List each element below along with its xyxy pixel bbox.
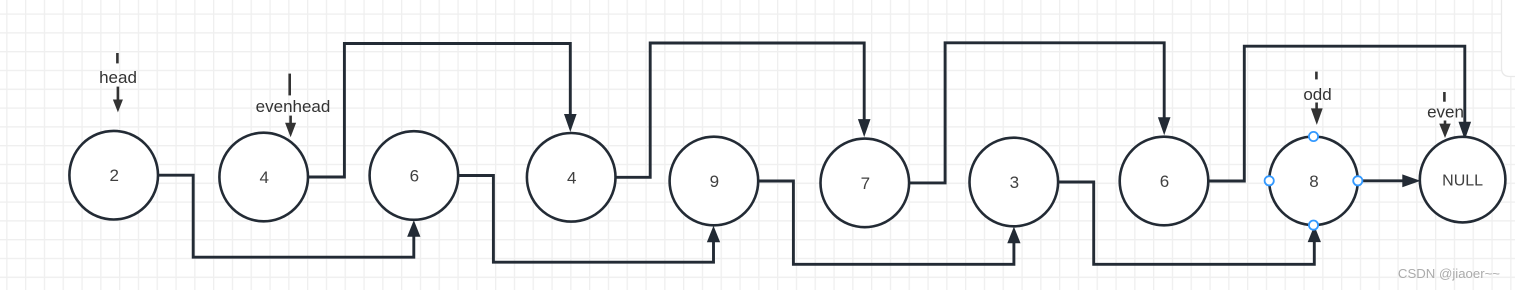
- wire 9 to 3 (bottom): [758, 181, 1014, 264]
- arrowhead into top of node 4b: [565, 115, 576, 131]
- wire 4b to 7 (top): [616, 43, 865, 177]
- svg-text:7: 7: [861, 174, 870, 193]
- label evenhead pointer: [256, 74, 331, 136]
- svg-text:evenhead: evenhead: [256, 97, 331, 116]
- wire 6b to NULL (top): [1208, 46, 1465, 181]
- node 6a: [370, 131, 459, 220]
- svg-text:9: 9: [710, 172, 719, 191]
- svg-text:6: 6: [1160, 172, 1169, 191]
- arrowhead into bottom of node 3: [1008, 228, 1020, 243]
- wire 8 to NULL (straight): [1358, 179, 1404, 182]
- wire 6a to 9 (bottom): [458, 176, 713, 263]
- node 4b: [527, 133, 616, 222]
- svg-text:even: even: [1427, 103, 1464, 122]
- node 9: [670, 137, 759, 226]
- top right panel edge: [1502, 0, 1515, 77]
- svg-text:head: head: [99, 68, 137, 87]
- arrowhead into bottom of node 6a: [408, 222, 420, 237]
- selection handle node 8 right: [1353, 176, 1362, 185]
- svg-text:2: 2: [109, 166, 118, 185]
- node 7: [821, 139, 910, 228]
- arrowhead into top of NULL: [1459, 122, 1470, 138]
- wire 7 to 6b (top): [909, 43, 1164, 183]
- selection handle node 8 top: [1309, 132, 1318, 141]
- wire 3 to 8 (bottom): [1058, 182, 1314, 264]
- node 4a: [219, 133, 308, 222]
- label head pointer: [99, 53, 137, 111]
- node 3: [970, 138, 1059, 227]
- arrowhead into top of node 6b: [1159, 118, 1170, 134]
- svg-text:6: 6: [410, 167, 419, 186]
- svg-text:CSDN @jiaoer~~: CSDN @jiaoer~~: [1398, 266, 1500, 281]
- node 6b: [1120, 137, 1209, 226]
- svg-text:4: 4: [567, 168, 576, 187]
- arrowhead into left of NULL: [1403, 175, 1419, 186]
- wire evenhead 4 to second 4 (top): [308, 44, 570, 178]
- node 2: [69, 131, 158, 220]
- node NULL: [1420, 137, 1506, 223]
- arrowhead into bottom of node 9: [708, 227, 720, 242]
- svg-text:8: 8: [1309, 172, 1318, 191]
- label odd pointer: [1303, 72, 1331, 124]
- node 8: [1269, 137, 1358, 226]
- arrowhead into top of node 7: [859, 120, 870, 136]
- selection handle node 8 left: [1265, 176, 1274, 185]
- arrowhead into bottom of node 8: [1308, 227, 1320, 242]
- selection handle node 8 bottom: [1309, 221, 1318, 230]
- wire head 2 to 6a (bottom): [158, 175, 414, 257]
- svg-text:NULL: NULL: [1442, 172, 1483, 189]
- svg-text:3: 3: [1010, 173, 1019, 192]
- svg-text:odd: odd: [1303, 85, 1331, 104]
- svg-text:4: 4: [259, 168, 268, 187]
- label even pointer: [1427, 92, 1464, 137]
